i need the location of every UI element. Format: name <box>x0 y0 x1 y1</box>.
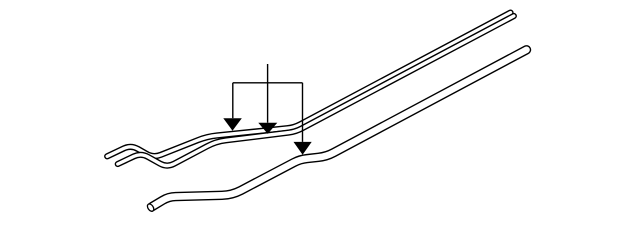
arrowhead A1 <box>223 118 242 131</box>
tube T3 open end cap ellipse <box>146 203 155 213</box>
arrowhead A3 <box>294 142 312 155</box>
callout bracket <box>233 64 303 142</box>
tube T2 (upper bundle, front tube) <box>118 16 514 166</box>
tube T3 (lower large tube) <box>152 50 527 207</box>
arrowhead A2 <box>258 123 277 134</box>
tube T1 (upper bundle, back tube) <box>107 13 510 157</box>
